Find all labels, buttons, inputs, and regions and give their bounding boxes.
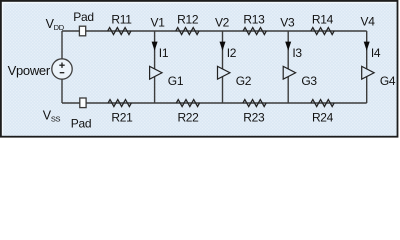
svg-text:R24: R24 [312, 110, 334, 124]
svg-text:R11: R11 [111, 12, 132, 26]
wire: bottom rail VSS [62, 102, 367, 104]
resistor R22 [176, 100, 199, 107]
resistor R13 [243, 28, 266, 35]
gate G4 [362, 66, 374, 79]
border frame [1, 1, 398, 137]
current arrow I1 [152, 42, 158, 51]
gate G1 [150, 66, 162, 79]
svg-text:Pad: Pad [73, 10, 93, 24]
svg-text:G2: G2 [236, 74, 252, 88]
page background [0, 0, 400, 139]
svg-text:I3: I3 [292, 46, 302, 60]
wire: top rail VDD [62, 30, 367, 32]
current arrow I2 [220, 42, 226, 51]
pad (top) [79, 26, 85, 36]
svg-text:I2: I2 [227, 46, 237, 60]
svg-text:R23: R23 [243, 110, 265, 124]
svg-text:I4: I4 [371, 46, 381, 60]
gate G3 [283, 66, 295, 79]
resistor R24 [311, 100, 334, 107]
wire: column 4 vertical [366, 31, 368, 103]
svg-text:R12: R12 [177, 12, 199, 26]
resistor R21 [108, 100, 131, 107]
svg-text:R14: R14 [312, 12, 334, 26]
svg-text:I1: I1 [159, 46, 169, 60]
svg-text:R22: R22 [177, 110, 199, 124]
current arrow I3 [285, 42, 291, 51]
wire: column 3 vertical [287, 31, 289, 103]
svg-text:R13: R13 [243, 12, 265, 26]
wire: left vertical through source [61, 31, 63, 103]
wire: column 1 vertical [154, 31, 156, 103]
resistor R12 [176, 28, 199, 35]
svg-text:V1: V1 [151, 15, 166, 29]
svg-text:V2: V2 [215, 15, 230, 29]
svg-text:V4: V4 [361, 14, 376, 28]
svg-text:G4: G4 [380, 74, 396, 88]
schematic sheet background [2, 2, 398, 137]
svg-text:G1: G1 [168, 74, 184, 88]
svg-text:V3: V3 [280, 15, 295, 29]
resistor R11 [108, 28, 131, 35]
wire: column 2 vertical [222, 31, 224, 103]
resistor R14 [311, 28, 334, 35]
svg-text:Pad: Pad [71, 116, 91, 130]
svg-text:Vpower: Vpower [8, 63, 51, 78]
frame inner highlight [3, 3, 396, 135]
gate G2 [218, 66, 230, 79]
pad (bottom) [80, 98, 86, 108]
resistor R23 [243, 100, 266, 107]
voltage source Vpower [52, 59, 72, 79]
svg-text:R21: R21 [111, 110, 133, 124]
current arrow I4 [364, 42, 370, 51]
svg-text:G3: G3 [301, 74, 317, 88]
